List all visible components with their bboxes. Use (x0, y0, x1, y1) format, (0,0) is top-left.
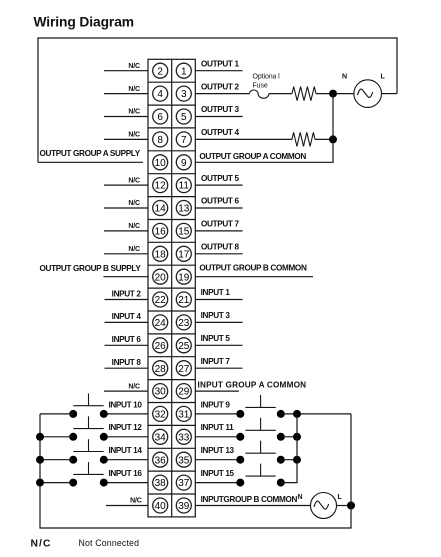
wire output2 to fuse (195, 93, 249, 95)
svg-text:Wiring Diagram: Wiring Diagram (34, 15, 134, 30)
node far rail source junction (347, 502, 355, 510)
svg-text:24: 24 (155, 318, 167, 329)
terminal 25 (176, 338, 191, 353)
svg-text:5: 5 (181, 112, 187, 123)
svg-text:N: N (298, 494, 303, 501)
terminal 4 (153, 86, 168, 101)
svg-text:35: 35 (178, 455, 190, 466)
wire INPUT 16 switch to left rail (40, 482, 73, 484)
wire N/C terminal 30 (104, 390, 148, 392)
svg-text:14: 14 (155, 204, 167, 215)
terminal 9 (176, 155, 191, 170)
svg-text:13: 13 (178, 204, 190, 215)
svg-text:26: 26 (155, 341, 167, 352)
wire output group B supply stub (103, 276, 148, 278)
wire R2 to node B (315, 138, 333, 140)
svg-text:INPUT 6: INPUT 6 (112, 335, 142, 344)
svg-text:N/C: N/C (128, 383, 140, 390)
terminal 29 (176, 384, 191, 399)
wire OUTPUT 8 stub (195, 253, 242, 255)
wire OUTPUT 6 stub (195, 207, 242, 209)
wire N/C terminal 18 (104, 253, 148, 255)
svg-text:N/C: N/C (130, 498, 142, 505)
terminal 14 (153, 201, 168, 216)
terminal 34 (153, 429, 168, 444)
wire INPUT 8 stub (105, 367, 149, 369)
svg-text:29: 29 (178, 387, 190, 398)
terminal 31 (176, 406, 191, 421)
wire N/C terminal 4 (104, 93, 148, 95)
svg-text:N/C: N/C (128, 132, 140, 139)
wire INPUT 11 terminal to switch (195, 436, 240, 438)
wire source to far rail (337, 505, 352, 507)
terminal 17 (176, 246, 191, 261)
terminal 19 (176, 269, 191, 284)
svg-text:Fuse: Fuse (253, 83, 268, 90)
node inner rail row 17 (293, 433, 301, 441)
node inner rail row 16 (293, 410, 301, 418)
svg-text:6: 6 (157, 112, 163, 123)
wire INPUT 14 terminal to switch (104, 459, 148, 461)
svg-text:INPUT GROUP A COMMON: INPUT GROUP A COMMON (198, 381, 307, 390)
svg-text:INPUT 8: INPUT 8 (112, 358, 142, 367)
svg-text:17: 17 (178, 249, 190, 260)
svg-text:INPUT 14: INPUT 14 (108, 446, 142, 455)
svg-text:22: 22 (155, 295, 167, 306)
wire output4 to R2 (195, 138, 292, 140)
wire INPUT 3 stub (195, 321, 242, 323)
svg-text:INPUT 15: INPUT 15 (201, 469, 235, 478)
svg-text:32: 32 (155, 410, 167, 421)
AC source V2 (311, 493, 337, 519)
svg-text:12: 12 (155, 181, 167, 192)
wire INPUT 1 stub (195, 299, 242, 301)
svg-text:27: 27 (178, 364, 190, 375)
terminal 33 (176, 429, 191, 444)
svg-text:11: 11 (179, 181, 190, 192)
svg-text:INPUTGROUP B COMMON: INPUTGROUP B COMMON (201, 495, 298, 504)
svg-text:N/C: N/C (31, 539, 52, 550)
svg-text:N/C: N/C (128, 177, 140, 184)
wire left rail down (37, 38, 39, 162)
svg-text:38: 38 (155, 478, 167, 489)
terminal 26 (153, 338, 168, 353)
terminal 16 (153, 223, 168, 238)
wire source to right rail (382, 93, 398, 95)
terminal 23 (176, 315, 191, 330)
AC source V1 (354, 80, 382, 108)
wire input group A common stub (195, 390, 239, 392)
svg-text:OUTPUT GROUP B COMMON: OUTPUT GROUP B COMMON (199, 264, 307, 273)
wire INPUT 14 switch to left rail (40, 459, 73, 461)
svg-text:OUTPUT 8: OUTPUT 8 (201, 243, 239, 252)
svg-text:INPUT 4: INPUT 4 (112, 312, 142, 321)
svg-text:10: 10 (155, 158, 167, 169)
wire input9 switch to far rail (281, 413, 351, 415)
svg-text:36: 36 (155, 455, 167, 466)
resistor load L1 (output 2) (292, 87, 316, 101)
terminal 5 (176, 109, 191, 124)
terminal 27 (176, 361, 191, 376)
svg-text:2: 2 (157, 66, 163, 77)
terminal 30 (153, 384, 168, 399)
terminal 36 (153, 452, 168, 467)
svg-text:N/C: N/C (128, 86, 140, 93)
wire INPUT 13 terminal to switch (195, 459, 240, 461)
node B junction (329, 135, 337, 143)
wire INPUT 12 switch to left rail (40, 436, 73, 438)
node left rail row 17 (36, 433, 44, 441)
svg-text:N/C: N/C (128, 200, 140, 207)
svg-text:23: 23 (178, 318, 190, 329)
terminal 22 (153, 292, 168, 307)
wire top rail (37, 37, 397, 39)
wire OUTPUT 1 stub (195, 70, 242, 72)
node left rail row 18 (36, 456, 44, 464)
svg-text:INPUT 2: INPUT 2 (112, 289, 142, 298)
terminal 2 (153, 63, 168, 78)
terminal 20 (153, 269, 168, 284)
terminal 15 (176, 223, 191, 238)
wire INPUT 6 stub (105, 344, 149, 346)
terminal block outline (148, 59, 195, 517)
wire node A to common (332, 94, 334, 163)
wire N/C terminal 16 (104, 230, 148, 232)
terminal 10 (153, 155, 168, 170)
switch S10 pushbutton (69, 410, 77, 418)
svg-text:31: 31 (178, 410, 190, 421)
wire input group B common to source (195, 505, 310, 507)
svg-text:15: 15 (178, 227, 190, 238)
terminal 32 (153, 406, 168, 421)
svg-text:OUTPUT 4: OUTPUT 4 (201, 128, 239, 137)
svg-text:INPUT 7: INPUT 7 (201, 357, 231, 366)
svg-text:OUTPUT GROUP A SUPPLY: OUTPUT GROUP A SUPPLY (40, 149, 141, 158)
terminal 35 (176, 452, 191, 467)
terminal 1 (176, 63, 191, 78)
wire INPUT 10 switch to left rail (40, 413, 73, 415)
switch S13 pushbutton (236, 456, 244, 464)
terminal 13 (176, 201, 191, 216)
svg-text:OUTPUT 5: OUTPUT 5 (201, 174, 239, 183)
wire output group A supply (38, 161, 143, 163)
switch S11 pushbutton (236, 433, 244, 441)
wire output group B common stub (195, 276, 313, 278)
wire OUTPUT 3 stub (195, 116, 242, 118)
wire INPUT 5 stub (195, 344, 242, 346)
svg-text:OUTPUT 2: OUTPUT 2 (201, 82, 239, 91)
terminal 12 (153, 178, 168, 193)
terminal 24 (153, 315, 168, 330)
wire N/C terminal 8 (104, 138, 148, 140)
wire N/C terminal 2 (104, 70, 148, 72)
terminal 11 (176, 178, 191, 193)
switch S9 pushbutton (236, 410, 244, 418)
svg-text:18: 18 (155, 249, 167, 260)
wire OUTPUT 7 stub (195, 230, 242, 232)
terminal 40 (153, 498, 168, 513)
svg-text:OUTPUT GROUP B SUPPLY: OUTPUT GROUP B SUPPLY (40, 264, 142, 273)
node left rail row 19 (36, 479, 44, 487)
terminal 7 (176, 132, 191, 147)
svg-text:25: 25 (178, 341, 190, 352)
svg-text:N: N (342, 74, 347, 81)
wire inner rail to input15 switch (281, 482, 298, 484)
svg-text:N/C: N/C (128, 109, 140, 116)
terminal 21 (176, 292, 191, 307)
svg-text:3: 3 (181, 89, 187, 100)
svg-text:INPUT 12: INPUT 12 (108, 423, 142, 432)
svg-text:9: 9 (181, 158, 187, 169)
svg-text:INPUT 3: INPUT 3 (201, 311, 231, 320)
svg-text:34: 34 (155, 432, 167, 443)
svg-text:21: 21 (178, 295, 190, 306)
svg-text:Optiona l: Optiona l (253, 74, 281, 81)
wire R1 to node A (316, 93, 354, 95)
wire fuse to R1 (269, 93, 292, 95)
terminal 38 (153, 475, 168, 490)
svg-text:N/C: N/C (128, 63, 140, 70)
svg-text:INPUT 13: INPUT 13 (201, 446, 235, 455)
svg-text:INPUT 1: INPUT 1 (201, 288, 231, 297)
svg-text:40: 40 (155, 501, 167, 512)
terminal 18 (153, 246, 168, 261)
svg-text:16: 16 (155, 227, 167, 238)
wire left input rail (39, 414, 41, 528)
wire N/C terminal 40 (106, 505, 148, 507)
svg-text:N/C: N/C (128, 246, 140, 253)
svg-text:19: 19 (178, 272, 190, 283)
wire INPUT 9 terminal to switch (195, 413, 240, 415)
svg-text:OUTPUT GROUP A COMMON: OUTPUT GROUP A COMMON (199, 152, 306, 161)
svg-text:30: 30 (155, 387, 167, 398)
svg-text:N/C: N/C (128, 223, 140, 230)
svg-text:Not Connected: Not Connected (79, 538, 140, 548)
switch S12 pushbutton (69, 433, 77, 441)
svg-text:OUTPUT 7: OUTPUT 7 (201, 220, 239, 229)
svg-text:33: 33 (178, 432, 190, 443)
resistor load L2 (output 4) (292, 132, 315, 146)
svg-text:INPUT 5: INPUT 5 (201, 334, 231, 343)
node inner rail row 18 (293, 456, 301, 464)
wire INPUT 16 terminal to switch (104, 482, 148, 484)
wire INPUT 15 terminal to switch (195, 482, 240, 484)
wire INPUT 12 terminal to switch (104, 436, 148, 438)
wire INPUT 4 stub (105, 321, 149, 323)
svg-text:INPUT 16: INPUT 16 (108, 469, 142, 478)
wire inner rail (296, 414, 298, 483)
svg-text:OUTPUT 1: OUTPUT 1 (201, 59, 239, 68)
wire far right rail (350, 414, 352, 528)
terminal 28 (153, 361, 168, 376)
wire INPUT 10 terminal to switch (104, 413, 148, 415)
wire N/C terminal 6 (104, 116, 148, 118)
svg-text:20: 20 (155, 272, 167, 283)
wire output group A common (195, 161, 333, 163)
svg-text:OUTPUT 6: OUTPUT 6 (201, 197, 239, 206)
wire switch row 18 to inner rail (281, 459, 297, 461)
wire right rail up (396, 38, 398, 94)
svg-text:INPUT 11: INPUT 11 (201, 423, 234, 432)
svg-text:39: 39 (178, 501, 190, 512)
terminal 37 (176, 475, 191, 490)
wire INPUT 2 stub (105, 299, 149, 301)
svg-text:7: 7 (181, 135, 187, 146)
svg-text:28: 28 (155, 364, 167, 375)
node A junction (329, 90, 337, 98)
svg-text:8: 8 (157, 135, 163, 146)
wire N/C terminal 12 (104, 184, 148, 186)
svg-text:1: 1 (181, 66, 187, 77)
terminal 39 (176, 498, 191, 513)
svg-text:37: 37 (178, 478, 190, 489)
switch S15 pushbutton (236, 479, 244, 487)
wire N/C terminal 14 (104, 207, 148, 209)
wire INPUT 7 stub (195, 367, 242, 369)
svg-text:INPUT 9: INPUT 9 (201, 400, 231, 409)
wire bottom rail (39, 527, 351, 529)
wire OUTPUT 5 stub (195, 184, 242, 186)
switch S14 pushbutton (69, 456, 77, 464)
svg-text:INPUT 10: INPUT 10 (108, 400, 142, 409)
fuse F1 optional (250, 90, 269, 98)
terminal 6 (153, 109, 168, 124)
svg-text:4: 4 (157, 89, 163, 100)
terminal 8 (153, 132, 168, 147)
switch S16 pushbutton (69, 479, 77, 487)
svg-text:OUTPUT 3: OUTPUT 3 (201, 105, 239, 114)
wire switch row 17 to inner rail (281, 436, 297, 438)
terminal 3 (176, 86, 191, 101)
